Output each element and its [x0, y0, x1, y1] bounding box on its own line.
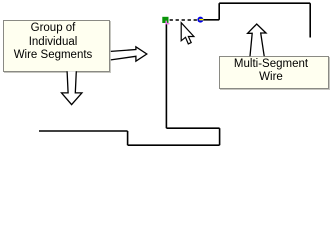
wire: multi-segment right vertical end: [309, 3, 311, 37]
wire: right step up vertical: [219, 128, 221, 145]
wire: dashed segment being drawn (green handle to blue node): [170, 19, 198, 21]
wire: long vertical segment up to junction: [165, 21, 167, 128]
wire: multi-segment horizontal from blue node: [200, 19, 219, 21]
wire: bottom horizontal segment: [128, 144, 220, 146]
arrow above box2 pointing up at wire corner: [248, 24, 266, 56]
arrow below box1 pointing down: [62, 71, 82, 104]
wire: left bottom step down vertical: [127, 131, 129, 145]
callout box "Multi-Segment Wire": [219, 56, 329, 89]
wire: middle horizontal segment: [166, 127, 219, 129]
wire: left bottom horizontal segment: [39, 130, 128, 132]
arrow from box1 pointing right at wire: [111, 47, 147, 61]
wire: multi-segment vertical up: [218, 3, 220, 20]
mouse cursor: [181, 23, 194, 44]
yellow wire-end highlight: [199, 19, 203, 21]
wire: multi-segment top horizontal: [219, 2, 310, 4]
callout box "Group of Individual Wire Segments": [3, 20, 110, 72]
green selection handle: [162, 17, 168, 23]
magenta elbow at junction: [166, 21, 169, 24]
blue node dot: [197, 17, 203, 23]
